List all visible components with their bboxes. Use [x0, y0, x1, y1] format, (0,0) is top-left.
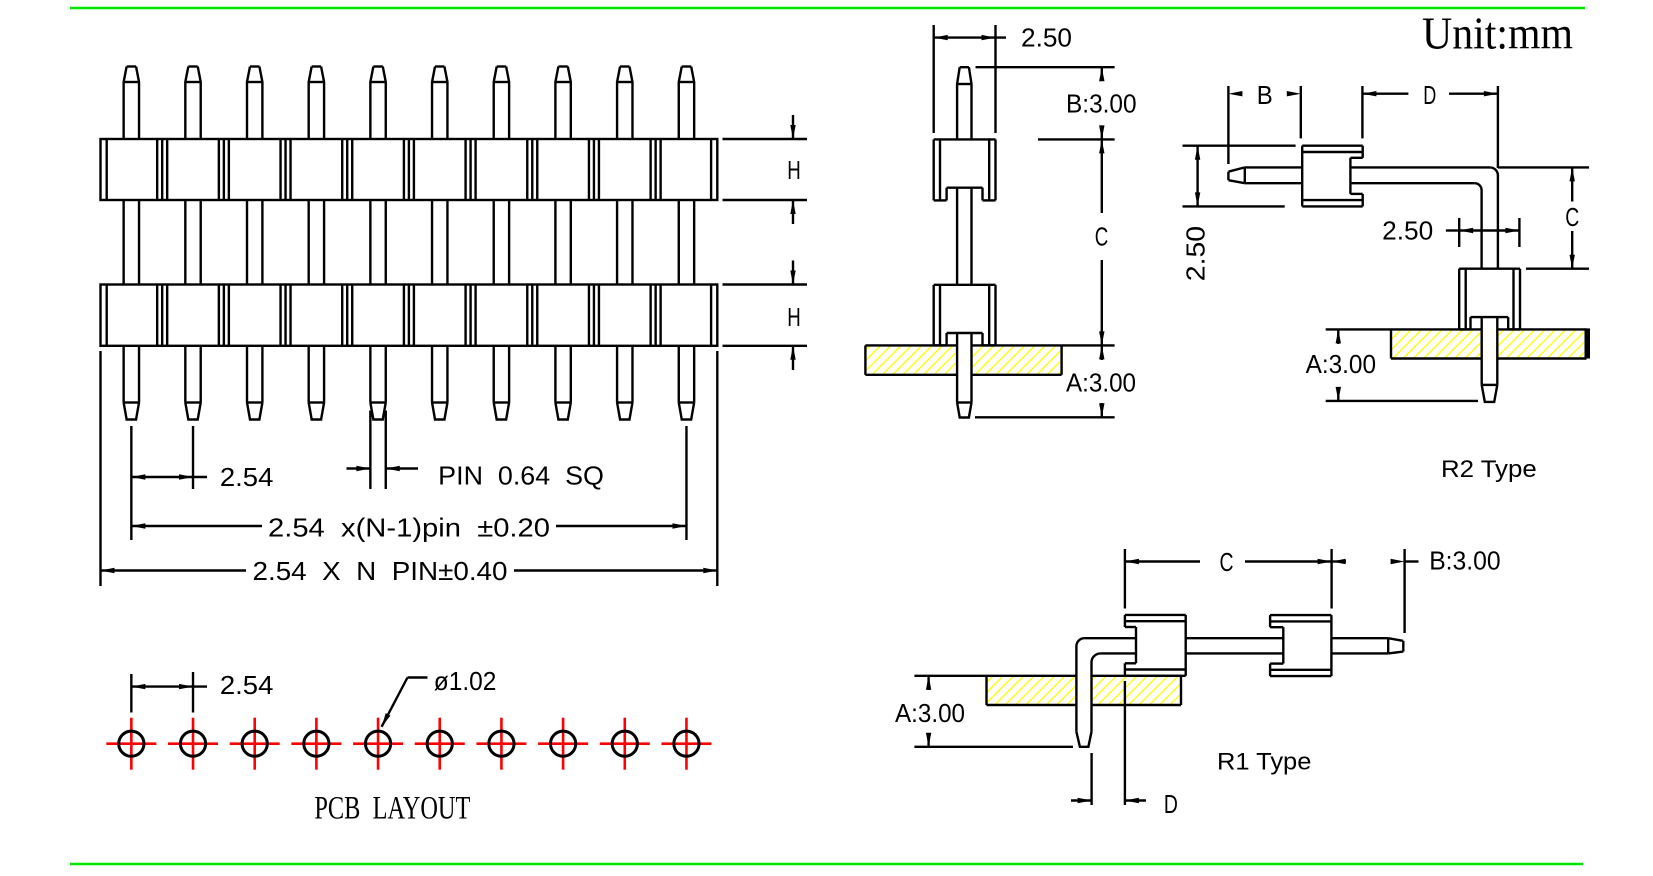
svg-text:C: C: [1220, 547, 1234, 577]
caption PCB LAYOUT: [314, 790, 470, 826]
dimension N-1 extension lines: [131, 426, 686, 540]
pin P2 (front view): [185, 67, 200, 420]
dimension A3.00 label (middle view): [1066, 368, 1136, 398]
dimension C reference lines (R2): [1498, 167, 1589, 268]
dimension 2.54 pitch label: [220, 462, 274, 492]
dimension 2.50 pitch line+arrows (R2): [1446, 228, 1520, 233]
pin tail tip (R1 type): [1076, 732, 1091, 747]
PCB board (middle view) hatch: [865, 343, 1061, 376]
dimension A3.00 bottom reference line: [975, 416, 1115, 418]
PCB board (R1 type) hatch: [987, 674, 1182, 707]
svg-text:D: D: [1423, 80, 1436, 110]
pin mating end (R1 type): [1186, 638, 1404, 653]
dimension 2.54 pitch extension lines: [131, 426, 193, 489]
svg-text:H: H: [787, 155, 801, 185]
svg-text:B:3.00: B:3.00: [1429, 546, 1501, 576]
pin P9 (front view): [617, 67, 632, 420]
svg-text:2.50: 2.50: [1382, 215, 1433, 245]
pin bend (R2 type): [1350, 167, 1498, 268]
housing right (R1 type): [1270, 615, 1331, 676]
svg-text:2.50: 2.50: [1021, 23, 1072, 53]
svg-text:A:3.00: A:3.00: [1066, 368, 1136, 398]
housing lower (middle view): [934, 285, 996, 346]
housing on PCB (R2 type): [1459, 269, 1520, 330]
svg-text:2.50: 2.50: [1181, 226, 1211, 281]
dimension C label (R1): [1220, 547, 1234, 577]
pin P3 (front view): [247, 67, 262, 420]
dimension B arrows (R2): [1228, 91, 1300, 96]
dimension H row2 label: [787, 302, 801, 332]
pin P7 (front view): [494, 67, 509, 420]
housing row 1 (front view): [101, 139, 718, 200]
PCB hole 5 (pad with crosshair): [353, 718, 403, 770]
border line bottom (green): [70, 863, 1583, 866]
pin P8 (front view): [555, 67, 570, 420]
dimension 2.54 hole pitch line+arrows: [131, 684, 207, 689]
dimension N-1 line+arrows: [131, 523, 686, 528]
dimension A3.00 arrows (middle view): [1099, 345, 1104, 417]
pin bend (R1 type): [1076, 638, 1136, 732]
svg-text:PCB LAYOUT: PCB LAYOUT: [314, 790, 470, 826]
dimension 2.54 hole pitch extension lines: [131, 672, 193, 713]
dimension H row2 arrows: [790, 261, 795, 371]
dimension A3.00 label (R2): [1306, 349, 1376, 379]
dimension D extension lines (R1): [1092, 681, 1125, 805]
pin P1 (front view): [124, 67, 139, 420]
PCB hole 2 (pad with crosshair): [168, 718, 218, 770]
caption R1 Type: [1217, 749, 1311, 776]
dimension 2.50 height line+arrows (R2): [1195, 146, 1200, 207]
pin P6 (front view): [432, 67, 447, 420]
svg-text:ø1.02: ø1.02: [434, 666, 497, 696]
dimension H row1 arrows: [790, 115, 795, 224]
dimension D arrows (R1): [1071, 798, 1146, 803]
dimension N label: [253, 556, 508, 586]
dimension PIN 0.64 SQ extension lines: [370, 411, 385, 490]
svg-text:B:3.00: B:3.00: [1066, 89, 1137, 119]
svg-text:R1 Type: R1 Type: [1217, 749, 1311, 776]
svg-text:2.54: 2.54: [220, 462, 274, 492]
dimension B3.00 extension line (R1): [1403, 549, 1405, 633]
PCB hole 7 (pad with crosshair): [476, 718, 526, 770]
dimension C label (R2): [1565, 202, 1579, 232]
dimension 2.54 hole pitch label: [220, 670, 274, 700]
PCB hole 8 (pad with crosshair): [538, 718, 588, 770]
dimension H row1 label: [787, 155, 801, 185]
dimension A3.00 reference lines (R1): [914, 676, 1073, 747]
dimension C label (middle view): [1095, 222, 1109, 252]
PCB hole 3 (pad with crosshair): [230, 718, 280, 770]
pin P4 (front view): [309, 67, 324, 420]
svg-text:2.54 x(N-1)pin ±0.20: 2.54 x(N-1)pin ±0.20: [268, 513, 550, 543]
dimension N line+arrows: [101, 568, 718, 573]
PCB hole 10 (pad with crosshair): [661, 718, 711, 770]
dimension H row1 extension lines: [723, 139, 808, 200]
dimension D label (R2): [1423, 80, 1436, 110]
svg-text:2.54: 2.54: [220, 670, 274, 700]
housing upper (middle view): [934, 139, 996, 200]
dimension A3.00 arrows (R2): [1336, 329, 1341, 401]
housing (R2 type, on pin axis): [1302, 146, 1363, 207]
dimension 2.50 width line+arrows: [934, 35, 1006, 40]
pin P5 (front view): [370, 67, 385, 420]
dimension PIN 0.64 SQ label: [438, 460, 604, 490]
dimension A3.00 reference lines (R2): [1326, 329, 1478, 401]
PCB hole 9 (pad with crosshair): [600, 718, 650, 770]
dimension C extension lines (R1): [1125, 549, 1332, 609]
dimension C line+arrows (R1): [1125, 559, 1332, 564]
pin mating end (R2 type): [1228, 167, 1302, 183]
dimension 2.54 pitch line+arrows: [131, 474, 207, 479]
svg-text:D: D: [1164, 789, 1178, 819]
dimension N extension lines: [101, 351, 718, 586]
svg-text:H: H: [787, 302, 801, 332]
dimension B extension lines (R2): [1228, 86, 1300, 164]
dimension 2.50 pitch extension lines (R2): [1459, 218, 1519, 247]
dimension 2.50 width extension lines: [934, 25, 996, 133]
dimension 2.50 height label (R2): [1181, 226, 1211, 281]
dimension PIN 0.64 SQ arrows: [347, 466, 419, 471]
dimension B3.00 label (R1): [1429, 546, 1501, 576]
pin tail through PCB (R2 type): [1482, 317, 1498, 402]
dimension 2.50 pitch label (R2): [1382, 215, 1433, 245]
PCB hole 6 (pad with crosshair): [415, 718, 465, 770]
svg-text:B: B: [1257, 80, 1273, 110]
housing row 2 (front view): [101, 285, 718, 346]
svg-text:A:3.00: A:3.00: [1306, 349, 1376, 379]
dimension B3.00 label: [1066, 89, 1137, 119]
dimension A3.00 arrows (R1): [926, 676, 931, 747]
dimension H row2 extension lines: [723, 285, 808, 346]
pin P10 (front view): [679, 67, 694, 420]
svg-text:C: C: [1095, 222, 1109, 252]
dimension A3.00 label (R1): [895, 698, 965, 728]
dimension B label (R2): [1257, 80, 1273, 110]
dimension C bottom reference line: [1062, 344, 1115, 346]
dimension D extension lines (R2): [1362, 86, 1498, 168]
svg-text:Unit:mm: Unit:mm: [1422, 9, 1573, 59]
caption R2 Type: [1441, 456, 1537, 483]
title Unit:mm: [1422, 9, 1573, 59]
leader arrow hole diameter: [382, 678, 428, 727]
dimension B3.00 reference lines: [976, 67, 1115, 139]
border line top (green): [70, 7, 1585, 10]
PCB hole 4 (pad with crosshair): [291, 718, 341, 770]
svg-text:A:3.00: A:3.00: [895, 698, 965, 728]
label hole diameter 1.02: [434, 666, 497, 696]
dimension C line+arrows (R2): [1570, 167, 1575, 268]
dimension D label (R1): [1164, 789, 1178, 819]
dimension 2.50 height extension lines (R2): [1183, 146, 1296, 207]
pin (middle side view): [957, 67, 971, 417]
dimension N-1 label: [268, 513, 550, 543]
PCB hole 1 (pad with crosshair): [106, 718, 156, 770]
housing left (R1 type): [1125, 615, 1186, 676]
PCB board (R2 type) hatch: [1391, 327, 1590, 360]
svg-text:2.54 X N PIN±0.40: 2.54 X N PIN±0.40: [253, 556, 508, 586]
svg-text:R2 Type: R2 Type: [1441, 456, 1537, 483]
dimension B3.00 arrows (R1): [1332, 559, 1419, 564]
dimension 2.50 width label: [1021, 23, 1072, 53]
svg-text:C: C: [1565, 202, 1579, 232]
dimension C line (middle view): [1099, 139, 1104, 345]
dimension B3.00 arrows: [1099, 67, 1104, 139]
svg-text:PIN 0.64 SQ: PIN 0.64 SQ: [438, 460, 604, 490]
dimension D line+arrows (R2): [1362, 91, 1498, 96]
